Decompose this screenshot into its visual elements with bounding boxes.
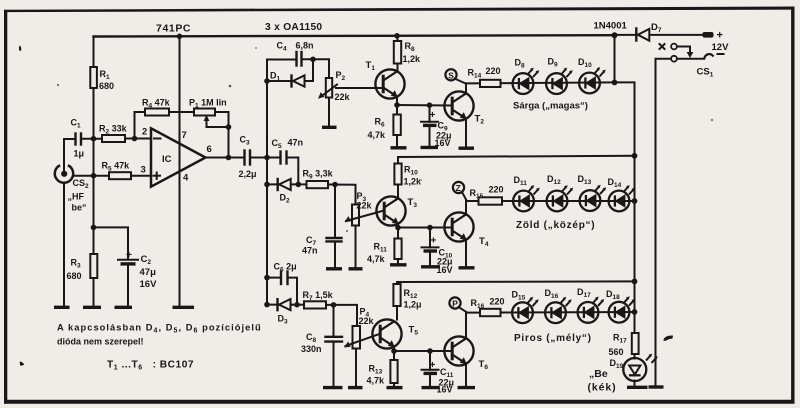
LED D16 bbox=[545, 288, 572, 323]
diode D3 bbox=[278, 299, 291, 326]
capacitor C11 22u 16V bbox=[422, 360, 455, 394]
wire: CS2 tip to R5 bbox=[74, 175, 110, 177]
wire: R17 to D19 bbox=[634, 354, 636, 359]
transistor T1 bbox=[366, 60, 405, 99]
LED D9 bbox=[546, 57, 573, 95]
svg-text:680: 680 bbox=[99, 81, 114, 91]
svg-text:22k: 22k bbox=[359, 316, 375, 326]
wire: C11 stem bbox=[429, 351, 431, 370]
wire: T1 emitter to node bbox=[396, 97, 398, 106]
wire: emitter node to T2 base bbox=[397, 104, 452, 107]
wire: P2 bottom to ground bbox=[328, 98, 330, 127]
transistor T2 bbox=[444, 91, 484, 125]
svg-text:220: 220 bbox=[490, 297, 505, 307]
node: rail / LED row3 junction bbox=[632, 309, 638, 315]
wire: T5 emitter to node bbox=[393, 347, 395, 352]
wire: bus to D2 bbox=[267, 183, 292, 185]
ground R11 bbox=[390, 263, 407, 266]
svg-text:47n: 47n bbox=[302, 246, 318, 256]
resistor R3 680 bbox=[67, 254, 98, 281]
wire: channel3 supply rail bbox=[397, 281, 635, 284]
svg-text:4,7k: 4,7k bbox=[367, 376, 386, 386]
ground R6 bbox=[391, 146, 407, 149]
node: C5/D2/R9 junction bbox=[296, 182, 302, 188]
LED D10 bbox=[578, 57, 606, 93]
wire: R6 to ground bbox=[396, 135, 398, 148]
wire: bus to D3 bbox=[267, 304, 292, 306]
LED D15 bbox=[512, 290, 539, 324]
potentiometer P4 22k bbox=[346, 307, 381, 349]
LED D8 bbox=[513, 58, 540, 95]
svg-text:6: 6 bbox=[207, 144, 212, 155]
wire: P4 bottom to ground bbox=[355, 349, 357, 388]
wire: D19 to ground bbox=[634, 381, 636, 388]
wire: R10 to T3 collector bbox=[397, 185, 399, 199]
capacitor C10 22u 16V bbox=[422, 236, 453, 276]
wire: T6 emitter to ground bbox=[465, 364, 467, 387]
svg-text:330n: 330n bbox=[301, 344, 322, 354]
LED D18 bbox=[606, 289, 635, 323]
ground C9 bbox=[421, 146, 439, 149]
wire: T6 collector riser to LED row bbox=[465, 313, 467, 339]
wire: R7 to P4 drop bbox=[326, 305, 357, 326]
capacitor C9 22u 16V bbox=[421, 110, 452, 148]
switch CS1 bbox=[660, 44, 714, 79]
LED D13 bbox=[578, 174, 607, 211]
node: top rail / op-amp pin7 junction bbox=[177, 34, 183, 40]
node S (magas channel indicator) bbox=[445, 69, 465, 83]
ground T4 bbox=[459, 266, 475, 269]
svg-text:Zöld („közép“): Zöld („közép“) bbox=[516, 220, 595, 231]
wire: node down to R13 bbox=[393, 351, 395, 360]
ground P4 bbox=[348, 386, 363, 389]
wire: R11 to ground bbox=[397, 259, 399, 265]
wire: D2 to R9 bbox=[292, 183, 307, 185]
svg-text:47μ: 47μ bbox=[140, 267, 157, 278]
wire: T2 emitter to ground bbox=[465, 119, 467, 148]
svg-text:„Be: „Be bbox=[589, 368, 608, 380]
wiper arrowhead P4 bbox=[344, 342, 351, 348]
ground op-amp pin4 bbox=[173, 306, 195, 309]
node: T1 emitter node bbox=[394, 102, 400, 108]
potentiometer P3 22k bbox=[346, 191, 384, 226]
svg-text:3 x OA1150: 3 x OA1150 bbox=[265, 22, 322, 33]
transistor T3 bbox=[376, 196, 417, 225]
wire: right LED return rail bbox=[634, 156, 636, 333]
wire: LED row 3 (Piros) bbox=[466, 311, 635, 314]
svg-text:IC: IC bbox=[162, 154, 172, 165]
capacitor C8 330n bbox=[301, 332, 342, 354]
LED D17 bbox=[577, 287, 604, 323]
wire: D3 to R7 bbox=[292, 304, 304, 306]
node: R2/C1 bias node bbox=[91, 136, 97, 142]
node: output / P1 junction bbox=[226, 155, 232, 161]
resistor R12 1,2k bbox=[393, 284, 421, 310]
wire: riser from supply to LED row1 bbox=[614, 35, 616, 82]
node: R9 / C7 / P3 junction bbox=[332, 182, 338, 188]
node: top rail / D7 / LED column junction bbox=[612, 32, 618, 38]
ground CS1 rail bbox=[649, 385, 664, 388]
node: C9 tap bbox=[427, 102, 433, 108]
node: C4/D1 right junction bbox=[310, 57, 316, 63]
wire: op-amp pin7/pin4 vertical bbox=[179, 37, 181, 308]
wire: CS2 sleeve to ground bbox=[63, 183, 65, 307]
scan speckles bbox=[229, 85, 232, 88]
ink smudge artifact bbox=[664, 335, 674, 340]
ground T2 bbox=[459, 146, 475, 149]
capacitor C6 2u bbox=[274, 262, 297, 285]
wire: R4 to P1 bbox=[169, 111, 194, 113]
wire: C2 negative lead to ground bbox=[127, 264, 129, 307]
resistor R1 680 bbox=[90, 67, 114, 91]
node: C6/D3/R7 junction bbox=[294, 302, 300, 308]
wire: node down to R6 bbox=[396, 105, 398, 115]
resistor R2 33k bbox=[99, 124, 128, 143]
svg-text:+: + bbox=[430, 110, 436, 121]
ground D19 bbox=[627, 386, 648, 389]
capacitor C2 47u 16V bbox=[118, 250, 157, 290]
wire: P1 right end down to output node bbox=[215, 112, 229, 158]
ground C2 bbox=[115, 306, 133, 309]
svg-text:2,2μ: 2,2μ bbox=[239, 169, 257, 179]
svg-text:560: 560 bbox=[609, 347, 624, 357]
diode D1 bbox=[270, 71, 305, 87]
label Be (kek) bbox=[588, 368, 617, 394]
resistor R14 220 bbox=[468, 66, 501, 87]
svg-text:+: + bbox=[430, 360, 436, 371]
node: C11 tap bbox=[427, 348, 433, 354]
resistor R10 1,2k bbox=[394, 164, 422, 187]
wire: R12 to T5 collector bbox=[396, 306, 398, 320]
node: rail / channel3 rail junction bbox=[632, 279, 638, 285]
LED D19 blue power indicator bbox=[610, 354, 658, 381]
wire: LED row 2 (Zold) bbox=[466, 200, 635, 202]
node: rail / LED row2 junction bbox=[632, 198, 638, 204]
LED D12 bbox=[547, 174, 574, 211]
wire: P3 bottom to ground bbox=[355, 226, 357, 269]
wire: C3 to filter bus bbox=[250, 157, 281, 159]
node: bus / C3 / C5 junction bbox=[264, 155, 270, 161]
svg-text:Z: Z bbox=[456, 183, 461, 193]
LED D14 bbox=[608, 177, 636, 211]
svg-text:T1 ...T6 : BC107: T1 ...T6 : BC107 bbox=[107, 360, 194, 372]
svg-text:1,2μ: 1,2μ bbox=[404, 300, 422, 310]
resistor R15 220 bbox=[470, 185, 504, 205]
wire: node down to R11 bbox=[397, 228, 399, 239]
resistor R16 220 bbox=[471, 297, 505, 317]
potentiometer P1 1M lin bbox=[189, 98, 227, 128]
wire: D1 right side riser bbox=[305, 59, 314, 81]
svg-text:Piros („mély“): Piros („mély“) bbox=[514, 333, 592, 344]
wire: node to C2 bbox=[94, 227, 129, 259]
wire: T4 emitter to ground bbox=[465, 240, 467, 267]
wire: R5 to op-amp pin 3 bbox=[131, 175, 151, 177]
node: rail / channel2 rail junction bbox=[632, 153, 638, 159]
svg-text:16V: 16V bbox=[140, 279, 158, 290]
resistor R5 47k bbox=[102, 161, 132, 180]
svg-text:+: + bbox=[126, 250, 132, 261]
wire: rail to R8 bbox=[397, 37, 399, 42]
svg-text:220: 220 bbox=[486, 66, 501, 76]
svg-text:680: 680 bbox=[67, 271, 82, 281]
node: bus / D2 junction bbox=[264, 182, 270, 188]
svg-text:741PC: 741PC bbox=[156, 23, 191, 35]
stray pen tick bbox=[19, 46, 21, 52]
svg-text:dióda nem szerepel!: dióda nem szerepel! bbox=[57, 337, 144, 347]
ground R3 bbox=[83, 306, 101, 309]
ground CS2 bbox=[54, 306, 70, 309]
wire: R13 to ground bbox=[393, 383, 395, 388]
svg-text:(kék): (kék) bbox=[588, 382, 617, 394]
wire: D7 anode to +12V terminal bbox=[615, 34, 704, 36]
diode D2 bbox=[278, 179, 291, 205]
node: LED row1 / supply column junction bbox=[612, 80, 618, 86]
resistor R17 560 bbox=[609, 333, 639, 358]
wire: channel2 supply rail bbox=[398, 156, 635, 164]
wire: C6 right corner dropping to D3 row bbox=[288, 278, 298, 305]
svg-text:1μ: 1μ bbox=[74, 149, 85, 159]
wire: C8 bottom to ground bbox=[333, 342, 335, 388]
node: R7 / C8 / P4 junction bbox=[331, 302, 337, 308]
svg-text:4: 4 bbox=[183, 173, 189, 184]
resistor R6 4,7k bbox=[368, 115, 401, 141]
wire: C10 stem bbox=[429, 228, 431, 248]
svg-text:12V: 12V bbox=[712, 42, 730, 53]
wire: +V top rail from R1 column to D7 junction bbox=[94, 35, 615, 36]
ground P2 bbox=[322, 126, 337, 129]
resistor R4 47k bbox=[142, 98, 171, 116]
node: R5 input node bbox=[91, 173, 97, 179]
transistor T5 bbox=[372, 319, 418, 348]
wire: C5 to corner dropping to D2 row bbox=[287, 158, 299, 185]
diode D7 1N4001 bbox=[594, 21, 662, 41]
wire: T3 emitter to node bbox=[397, 224, 399, 228]
svg-text:+: + bbox=[431, 236, 437, 247]
svg-text:220: 220 bbox=[489, 185, 504, 195]
svg-text:1N4001: 1N4001 bbox=[594, 21, 628, 32]
wire: bus to D1 bbox=[267, 80, 292, 82]
wire: filter input bus vertical bbox=[266, 60, 268, 305]
svg-text:3: 3 bbox=[141, 165, 146, 176]
capacitor C1 1u bbox=[71, 118, 85, 159]
node: inverting input / feedback junction bbox=[132, 136, 138, 142]
op-amp U1 741PC bbox=[151, 23, 206, 187]
resistor R13 4,7k bbox=[367, 360, 398, 386]
12V supply minus terminal hook bbox=[704, 54, 724, 60]
wire: C9 to ground bbox=[429, 125, 431, 147]
svg-text:22k: 22k bbox=[335, 92, 351, 102]
svg-text:1,2k: 1,2k bbox=[404, 177, 423, 187]
wire: junction down to C8 bbox=[333, 305, 335, 337]
wire: P1 wiper tie bracket bbox=[207, 126, 229, 128]
capacitor C5 47n bbox=[272, 138, 304, 164]
capacitor C7 47n bbox=[302, 235, 342, 256]
wire: feedback riser to R4 bbox=[135, 112, 146, 139]
node: wiper tie junction bbox=[226, 124, 232, 130]
ground P3 bbox=[349, 267, 363, 270]
wire: C11 to ground bbox=[429, 374, 431, 388]
node: T5 emitter node bbox=[391, 348, 397, 354]
wire: emitter node to T6 base bbox=[394, 350, 452, 352]
ground C8 bbox=[323, 386, 343, 389]
wire: C1 right plate to R2 bbox=[81, 138, 102, 140]
svg-text:7: 7 bbox=[182, 130, 187, 141]
svg-text:6,8n: 6,8n bbox=[296, 41, 314, 51]
wire: R1/R3 bias column bbox=[93, 37, 95, 68]
capacitor C4 6,8n bbox=[277, 41, 314, 66]
node: C10 tap bbox=[427, 225, 433, 231]
wire: op-amp output to C3 bbox=[205, 157, 245, 159]
node: T3 emitter node bbox=[395, 225, 401, 231]
node: bus / D3 junction bbox=[264, 302, 270, 308]
wiper arrowhead P3 bbox=[345, 216, 352, 222]
node Z (kozep channel indicator) bbox=[453, 182, 466, 200]
wire: LED row 1 (Sarga) bbox=[466, 82, 635, 155]
transistor T4 bbox=[444, 212, 488, 248]
ground C11 bbox=[422, 386, 440, 389]
wire: R2 to op-amp pin 2 bbox=[125, 138, 151, 140]
wire: CS1 negative rail down to ground bbox=[656, 59, 672, 387]
wire: C7 bottom to ground bbox=[334, 242, 336, 269]
wire: bus corner to C4 bbox=[267, 59, 297, 61]
svg-text:+: + bbox=[717, 30, 723, 42]
svg-text:47n: 47n bbox=[288, 138, 304, 148]
wire: R9 to P3 drop bbox=[328, 185, 356, 205]
resistor R7 1,5k bbox=[303, 290, 334, 309]
node: C2 tap node bbox=[91, 225, 97, 231]
wire: C1 to CS2 jack tip bbox=[64, 139, 76, 165]
node P (mely channel indicator) bbox=[449, 297, 466, 311]
wire: P2 wiper to T1 base bbox=[336, 87, 383, 89]
node: top rail / R8 junction bbox=[394, 33, 400, 39]
node: bus / C6 junction bbox=[264, 275, 270, 281]
12V supply plus terminal bbox=[703, 30, 730, 54]
capacitor C3 2,2u bbox=[239, 135, 257, 180]
node: bus / D1 junction bbox=[264, 78, 270, 84]
svg-text:22k: 22k bbox=[357, 201, 373, 211]
wire: R8 to T1 collector bbox=[397, 64, 399, 72]
ground T6 bbox=[458, 386, 476, 389]
LED D11 bbox=[513, 175, 540, 211]
wire: junction down to C7 bbox=[334, 185, 336, 239]
svg-text:Sárga („magas“): Sárga („magas“) bbox=[513, 101, 588, 112]
wire: bus to C6 bbox=[267, 277, 281, 279]
resistor R11 4,7k bbox=[367, 239, 402, 265]
wire: T4 collector riser to LED row bbox=[465, 201, 467, 214]
ground C10 bbox=[421, 265, 440, 268]
wire: T2 collector riser to LED row bbox=[465, 83, 467, 93]
ground C7 bbox=[326, 267, 342, 270]
svg-text:1,2k: 1,2k bbox=[403, 54, 422, 64]
svg-text:be“: be“ bbox=[72, 203, 87, 213]
svg-text:S: S bbox=[448, 70, 454, 80]
resistor R9 3,3k bbox=[303, 169, 334, 189]
stray pen mark lower-left bbox=[20, 362, 25, 366]
resistor R8 1,2k bbox=[394, 41, 421, 64]
svg-text:4,7k: 4,7k bbox=[367, 254, 386, 264]
potentiometer P2 22k bbox=[318, 70, 351, 102]
jack CS2 HF input bbox=[55, 165, 89, 213]
wire: C10 to ground bbox=[429, 251, 431, 267]
svg-text:2: 2 bbox=[142, 127, 147, 138]
svg-text:4,7k: 4,7k bbox=[368, 130, 387, 140]
wire: emitter node to T4 base bbox=[398, 227, 452, 229]
svg-text:„HF: „HF bbox=[68, 192, 85, 202]
wire: C9 stem bbox=[429, 105, 431, 122]
ground R13 bbox=[387, 386, 403, 389]
transistor T6 bbox=[444, 336, 488, 371]
wire: C4 right to P2 top corner bbox=[302, 59, 330, 78]
